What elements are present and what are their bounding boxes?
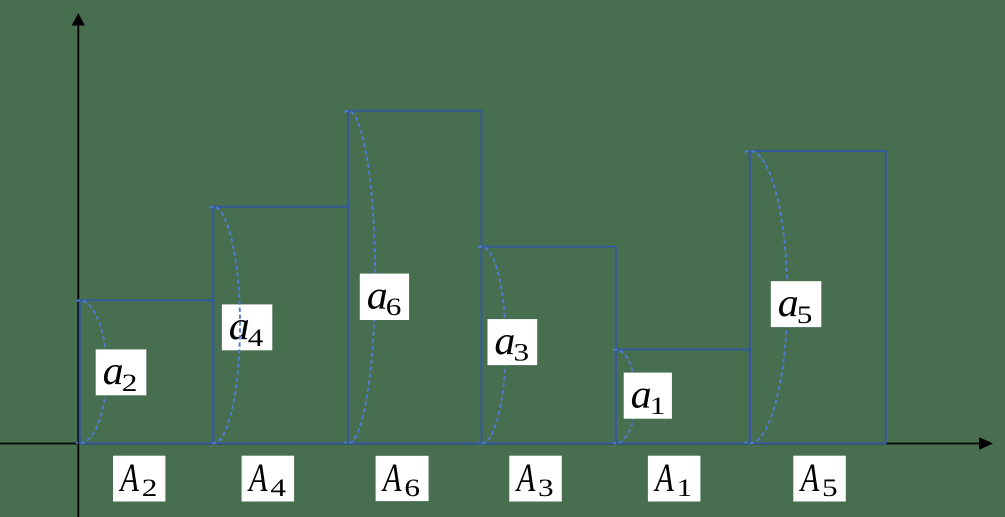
label box a4	[222, 303, 272, 352]
axis label box A2	[113, 455, 165, 502]
axis label box A3	[509, 455, 562, 502]
axis label box A4	[242, 455, 295, 502]
label box a1	[624, 371, 672, 420]
svg-text:a: a	[778, 280, 799, 325]
svg-text:2: 2	[142, 475, 158, 502]
bar A3 rectangle	[482, 247, 616, 444]
x-axis	[0, 443, 979, 445]
dashed height arc a5	[745, 151, 788, 443]
dashed height arc a1	[613, 350, 636, 444]
bar A5 rectangle	[750, 151, 886, 443]
svg-text:A: A	[654, 455, 674, 500]
axis label box A1	[648, 455, 701, 502]
dashed height arc a6	[344, 111, 375, 444]
y-axis arrowhead	[72, 13, 85, 26]
svg-text:A: A	[119, 455, 139, 500]
label box a5	[771, 280, 822, 329]
bar A6 rectangle	[348, 111, 481, 444]
axis label box A6	[376, 455, 429, 502]
svg-text:A: A	[247, 455, 267, 500]
x-axis arrowhead	[979, 437, 993, 450]
svg-text:A: A	[515, 455, 535, 500]
dashed height arc a3	[478, 247, 505, 444]
bar A1 rectangle	[616, 350, 750, 444]
svg-text:A: A	[381, 455, 401, 500]
svg-text:a: a	[631, 371, 652, 416]
svg-text:3: 3	[538, 475, 554, 502]
svg-text:3: 3	[514, 339, 530, 366]
svg-text:5: 5	[797, 302, 813, 329]
svg-text:a: a	[494, 318, 515, 363]
dashed height arc a2	[76, 300, 107, 443]
label box a3	[488, 318, 538, 367]
svg-text:4: 4	[248, 325, 264, 352]
label box a6	[360, 272, 409, 321]
y-axis	[77, 24, 79, 517]
bar A2 rectangle	[80, 300, 214, 443]
bar A4 rectangle	[213, 207, 348, 444]
svg-text:1: 1	[650, 393, 666, 420]
dashed height arc a4 (drawn over its label box)	[210, 207, 240, 444]
svg-text:5: 5	[822, 475, 838, 502]
svg-text:6: 6	[404, 475, 420, 502]
svg-text:A: A	[799, 455, 819, 500]
svg-text:a: a	[367, 272, 388, 317]
svg-text:1: 1	[677, 475, 693, 502]
svg-text:2: 2	[122, 370, 138, 397]
axis label box A5	[793, 455, 846, 502]
svg-text:4: 4	[270, 475, 286, 502]
label box a2	[96, 348, 147, 397]
svg-text:6: 6	[386, 294, 402, 321]
svg-text:a: a	[103, 348, 124, 393]
